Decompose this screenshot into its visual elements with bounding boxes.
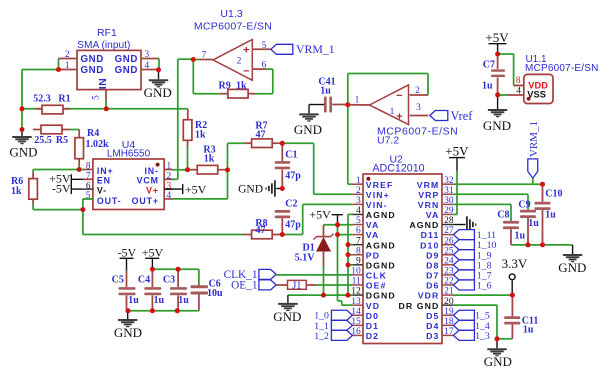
resistor R8 xyxy=(243,218,282,239)
resistor R7 xyxy=(245,121,283,148)
resistor R4 xyxy=(75,128,109,165)
resistor R3 xyxy=(190,145,228,175)
svg-text:R9: R9 xyxy=(219,80,231,91)
wire reference GND rail xyxy=(511,244,573,246)
wire left node vertical xyxy=(21,109,23,130)
svg-text:VRP: VRP xyxy=(418,190,439,200)
svg-text:6: 6 xyxy=(262,61,267,71)
wire IN+ node to R6 top xyxy=(33,170,79,173)
svg-text:13: 13 xyxy=(351,297,361,307)
svg-text:1: 1 xyxy=(167,162,172,172)
svg-text:1u: 1u xyxy=(154,295,165,306)
label 1_6 flag at D6 xyxy=(453,280,491,292)
label Vref flag xyxy=(430,109,473,123)
svg-text:GND: GND xyxy=(144,85,172,100)
svg-text:ADC12010: ADC12010 xyxy=(372,163,424,175)
svg-text:CLK: CLK xyxy=(366,271,387,281)
svg-text:47p: 47p xyxy=(285,171,301,182)
wire R8 node to U2 VIN- xyxy=(282,204,352,234)
svg-text:R5: R5 xyxy=(56,135,68,146)
junction +5V VA D1 xyxy=(335,222,340,227)
svg-text:VRM_1: VRM_1 xyxy=(296,42,335,56)
svg-text:VIN+: VIN+ xyxy=(366,190,390,200)
junction C7 bottom xyxy=(495,92,500,97)
svg-text:20: 20 xyxy=(444,297,454,307)
svg-text:GND: GND xyxy=(483,118,511,133)
svg-text:7: 7 xyxy=(202,51,207,61)
op-amp U4 LMH6550 xyxy=(83,139,173,209)
svg-text:PD: PD xyxy=(366,250,380,260)
svg-text:47: 47 xyxy=(256,129,266,140)
wire AGND pin7 xyxy=(348,244,352,246)
capacitor C7 xyxy=(482,54,505,95)
svg-text:4: 4 xyxy=(167,191,172,201)
svg-text:26: 26 xyxy=(444,236,454,246)
svg-text:D11: D11 xyxy=(421,230,440,240)
junction +5V C7 xyxy=(495,52,500,57)
svg-text:R1: R1 xyxy=(58,93,70,104)
svg-text:U1.3: U1.3 xyxy=(220,8,242,20)
svg-text:3.3V: 3.3V xyxy=(502,256,528,271)
svg-text:VA: VA xyxy=(366,220,380,230)
svg-text:1k: 1k xyxy=(204,154,215,165)
svg-text:8: 8 xyxy=(516,76,521,86)
wire U4 IN+ stub node xyxy=(79,169,83,171)
wire GND rail bottom xyxy=(128,310,199,312)
svg-text:+: + xyxy=(243,45,249,57)
svg-text:4: 4 xyxy=(356,206,361,216)
resistor R2 xyxy=(183,109,207,147)
svg-text:U7.2: U7.2 xyxy=(377,135,399,147)
svg-text:-5V: -5V xyxy=(52,182,71,196)
svg-text:D9: D9 xyxy=(426,250,439,260)
wire AGND pin4 xyxy=(348,214,352,295)
svg-text:52.3: 52.3 xyxy=(33,93,51,104)
IC U2 ADC12010 xyxy=(351,153,454,343)
junction VRM C10 xyxy=(540,182,545,187)
junction PD pin8 xyxy=(346,252,351,257)
svg-text:GND: GND xyxy=(81,54,104,65)
label 1_11 flag at D11 xyxy=(453,230,496,242)
svg-text:GND: GND xyxy=(294,122,322,137)
wire +5V rail top xyxy=(152,269,199,284)
junction C1 C2 middle xyxy=(280,186,285,191)
svg-text:+5V: +5V xyxy=(142,246,164,260)
svg-text:D5: D5 xyxy=(426,311,439,321)
svg-text:EN: EN xyxy=(97,176,111,186)
junction U1.3 output xyxy=(191,57,196,62)
junction R7 C1 xyxy=(280,141,285,146)
junction AGND GND net xyxy=(346,293,351,298)
svg-text:+: + xyxy=(396,111,402,123)
svg-text:-5V: -5V xyxy=(118,246,137,260)
supply -5V at C5 xyxy=(118,246,137,271)
svg-text:−: − xyxy=(396,90,402,102)
ground GND at U1.1 xyxy=(483,95,511,133)
svg-text:OUT-: OUT- xyxy=(97,196,122,206)
wire input node horizontal xyxy=(22,108,188,110)
svg-text:17: 17 xyxy=(444,327,454,337)
svg-text:5: 5 xyxy=(356,216,361,226)
svg-text:Vref: Vref xyxy=(451,109,474,123)
capacitor C5 xyxy=(112,270,140,311)
svg-text:D3: D3 xyxy=(426,331,439,341)
junction C11 DR GND xyxy=(495,336,500,341)
svg-text:1u: 1u xyxy=(515,231,526,242)
ground GND bottom right xyxy=(484,339,512,369)
svg-text:C9: C9 xyxy=(518,199,530,210)
connector RF1 SMA (input) xyxy=(59,27,160,101)
label 1_9 flag at D9 xyxy=(453,250,491,262)
svg-text:R4: R4 xyxy=(87,128,99,139)
svg-text:D8: D8 xyxy=(426,260,439,270)
label 1_3 flag at D3 xyxy=(453,330,489,342)
svg-text:GND: GND xyxy=(558,260,586,275)
wire CLK_1 to pin10 xyxy=(276,274,352,276)
svg-text:5: 5 xyxy=(262,41,267,51)
capacitor C10 xyxy=(535,184,563,245)
wire U1.3 feedback to R9 xyxy=(193,60,220,94)
junction C3 bottom xyxy=(175,308,180,313)
junction R1 left xyxy=(20,106,25,111)
junction AGND pin7 xyxy=(346,242,351,247)
ground GND at J1 xyxy=(273,295,301,324)
svg-text:GND: GND xyxy=(238,184,263,196)
wire J1 to OE# pin11 xyxy=(317,284,352,286)
svg-text:10: 10 xyxy=(351,267,361,277)
jumper J1 xyxy=(276,280,317,291)
svg-text:D10: D10 xyxy=(420,240,439,250)
svg-text:12: 12 xyxy=(351,287,361,297)
svg-text:1.02k: 1.02k xyxy=(86,139,110,150)
wire R4 to IN+ node xyxy=(78,165,80,170)
svg-text:GND: GND xyxy=(81,65,104,76)
svg-text:IN+: IN+ xyxy=(97,166,114,176)
svg-text:6: 6 xyxy=(356,226,361,236)
svg-text:C10: C10 xyxy=(545,189,562,200)
resistor R9 xyxy=(219,80,256,98)
junction VDR 3.3V xyxy=(510,293,515,298)
wire U4 OUT- down xyxy=(83,199,93,235)
junction C5 bottom xyxy=(126,308,131,313)
svg-text:1k: 1k xyxy=(11,186,22,197)
svg-text:1: 1 xyxy=(390,107,395,117)
svg-text:C4: C4 xyxy=(138,275,150,286)
junction R3 right OUT+ xyxy=(225,167,230,172)
wire +5V to VA pin29 xyxy=(453,171,457,215)
wire U4 IN- to R3 xyxy=(173,169,190,171)
capacitor C41 xyxy=(318,77,347,113)
svg-text:1u: 1u xyxy=(178,295,189,306)
svg-text:1u: 1u xyxy=(545,210,556,221)
svg-text:21: 21 xyxy=(444,287,454,297)
junction VA pin6 xyxy=(335,232,340,237)
label CLK_1 flag xyxy=(224,269,277,281)
resistor R6 xyxy=(11,173,37,205)
wire +5V to U1.1 VDD xyxy=(498,54,524,86)
svg-text:OUT+: OUT+ xyxy=(132,196,159,206)
svg-text:IN: IN xyxy=(97,78,109,90)
label 1_2 flag at D2 pin xyxy=(314,330,352,342)
svg-text:7: 7 xyxy=(356,236,361,246)
op-amp U7.2 MCP6007-E/SN xyxy=(348,85,458,147)
svg-text:−: − xyxy=(243,66,249,78)
supply +5V at D1 VA xyxy=(309,207,342,224)
svg-text:1u: 1u xyxy=(128,295,139,306)
svg-text:+5V: +5V xyxy=(445,144,469,159)
svg-text:2: 2 xyxy=(65,50,70,60)
svg-text:D1: D1 xyxy=(302,242,314,253)
svg-text:31: 31 xyxy=(444,186,454,196)
wire VRP pin31 row xyxy=(453,194,528,210)
svg-text:VREF: VREF xyxy=(366,180,394,190)
junction DGND pin9 xyxy=(346,262,351,267)
supply -5V at U4 V- xyxy=(52,182,83,196)
wire C7 to U1.1 VSS xyxy=(498,94,524,96)
wire D1 anode to GND net xyxy=(323,266,325,295)
wire DR GND pin20 xyxy=(453,305,497,339)
junction RF1 pin5 node xyxy=(104,106,109,111)
svg-text:D0: D0 xyxy=(366,311,379,321)
svg-text:VA: VA xyxy=(366,230,380,240)
svg-text:22: 22 xyxy=(444,277,454,287)
junction C4 top xyxy=(150,267,155,272)
svg-text:2: 2 xyxy=(415,86,420,96)
wire R2 bottom xyxy=(187,147,189,170)
svg-text:5.1V: 5.1V xyxy=(295,253,316,264)
svg-text:C2: C2 xyxy=(285,199,297,210)
svg-text:J1: J1 xyxy=(292,280,301,291)
label VRM_1 vertical flag xyxy=(528,121,540,184)
junction RF1 pin3-pin4 xyxy=(156,67,161,72)
svg-text:AGND: AGND xyxy=(409,220,439,230)
junction C41 node xyxy=(345,102,350,107)
ground GND left xyxy=(9,130,37,160)
svg-text:2: 2 xyxy=(167,172,172,182)
label 1_4 flag at D4 xyxy=(453,320,489,332)
supply +5V at C4 xyxy=(142,246,164,270)
svg-text:MCP6007-E/SN: MCP6007-E/SN xyxy=(525,63,599,74)
supply +5V at U2 VA right xyxy=(445,144,469,171)
svg-text:1: 1 xyxy=(65,61,70,71)
svg-text:D2: D2 xyxy=(366,331,379,341)
capacitor C4 xyxy=(138,269,165,311)
wire VDR pin21 row xyxy=(453,294,512,296)
svg-text:+5V: +5V xyxy=(309,207,331,221)
label 1_8 flag at D8 xyxy=(453,260,491,272)
svg-text:D1: D1 xyxy=(366,321,379,331)
svg-text:SMA (input): SMA (input) xyxy=(77,40,130,51)
capacitor C11 xyxy=(504,295,538,339)
wire PD pin8 xyxy=(348,254,352,256)
svg-text:1u: 1u xyxy=(482,81,493,92)
capacitor C9 xyxy=(518,199,539,245)
ground at AGND pin28 (rotated) xyxy=(453,216,476,233)
junction R6 OUT- xyxy=(80,207,85,212)
svg-text:1u: 1u xyxy=(528,218,539,229)
wire RF1 pin2 to pin1 and left to node xyxy=(22,59,59,110)
svg-text:28: 28 xyxy=(444,216,454,226)
wire R9 to U1.3 -in xyxy=(255,69,273,94)
svg-text:GND: GND xyxy=(273,309,301,324)
svg-text:1: 1 xyxy=(355,96,360,106)
svg-text:GND: GND xyxy=(484,354,512,369)
wire U1.3 output xyxy=(193,59,200,61)
svg-text:MCP6007-E/SN: MCP6007-E/SN xyxy=(194,20,272,32)
capacitor C6 xyxy=(191,279,224,311)
wire R6 bottom to OUT- node xyxy=(33,205,83,210)
svg-text:D6: D6 xyxy=(426,281,439,291)
svg-text:1_6: 1_6 xyxy=(477,281,492,292)
svg-text:1: 1 xyxy=(356,176,361,186)
op-amp U1.3 MCP6007-E/SN xyxy=(194,8,272,80)
svg-text:4: 4 xyxy=(145,61,150,71)
svg-text:VCM: VCM xyxy=(137,176,159,186)
svg-text:VA: VA xyxy=(426,210,440,220)
wire R7 node to U2 VIN+ xyxy=(282,143,352,194)
wire U7.2 feedback xyxy=(348,74,428,105)
svg-text:1u: 1u xyxy=(523,325,534,336)
svg-text:3: 3 xyxy=(145,50,150,60)
svg-text:1k: 1k xyxy=(195,130,206,141)
ground GND at C41 xyxy=(294,105,324,138)
svg-text:C3: C3 xyxy=(163,275,175,286)
ground GND at C1 C2 (rotated) xyxy=(238,180,282,197)
svg-text:5: 5 xyxy=(91,95,101,100)
svg-text:19: 19 xyxy=(444,307,454,317)
label 1_0 flag at D0 xyxy=(314,310,352,322)
wire VA pin5 row xyxy=(324,224,353,226)
wire RF1 pin5 to R1 node xyxy=(105,101,107,109)
svg-text:47p: 47p xyxy=(285,220,301,231)
svg-text:10u: 10u xyxy=(207,288,223,299)
svg-text:GND: GND xyxy=(114,325,142,340)
svg-text:23: 23 xyxy=(444,267,454,277)
svg-text:VIN-: VIN- xyxy=(366,200,388,210)
resistor R5 xyxy=(33,125,70,146)
svg-text:VRM: VRM xyxy=(417,180,440,190)
wire +5V down to VD xyxy=(338,225,353,305)
junction R2 bottom IN- xyxy=(185,167,190,172)
svg-text:VDR: VDR xyxy=(418,291,440,301)
wire VRM pin32 row xyxy=(453,183,542,185)
junction C9 rail xyxy=(526,242,531,247)
svg-text:GND: GND xyxy=(115,65,138,76)
wire C41 node to U2 VREF xyxy=(348,105,353,185)
svg-text:OE_1: OE_1 xyxy=(231,280,257,292)
svg-text:V+: V+ xyxy=(146,186,159,196)
svg-text:6: 6 xyxy=(86,181,91,191)
capacitor C8 xyxy=(497,209,525,245)
junction R8 C2 xyxy=(280,232,285,237)
svg-text:8: 8 xyxy=(86,162,91,172)
svg-text:DGND: DGND xyxy=(366,291,396,301)
svg-text:27: 27 xyxy=(444,226,454,236)
junction C10 rail xyxy=(540,242,545,247)
diode D1 zener 5.1V xyxy=(295,225,334,266)
svg-text:D7: D7 xyxy=(426,271,439,281)
svg-text:RF1: RF1 xyxy=(97,27,117,39)
supply +5V at U4 V+ xyxy=(164,182,206,196)
svg-text:+5V: +5V xyxy=(185,182,207,196)
junction C3 top xyxy=(176,267,181,272)
svg-text:30: 30 xyxy=(444,196,454,206)
svg-text:32: 32 xyxy=(444,176,454,186)
wire R5 to R4 xyxy=(70,129,80,131)
ground GND at RF1 xyxy=(144,70,172,100)
wire GND net to DGND pin12 xyxy=(288,294,353,296)
svg-text:7: 7 xyxy=(86,172,91,182)
wire DGND pin9 xyxy=(348,264,352,266)
supply 3.3V node xyxy=(502,256,528,295)
svg-text:OE#: OE# xyxy=(366,281,387,291)
wire VRN pin30 row xyxy=(453,204,511,221)
svg-text:25: 25 xyxy=(444,246,454,256)
junction R4 bottom IN+ xyxy=(77,167,82,172)
svg-text:AGND: AGND xyxy=(366,210,396,220)
capacitor C1 xyxy=(275,143,302,188)
capacitor C3 xyxy=(163,269,189,311)
label 1_10 flag at D10 xyxy=(453,240,496,252)
svg-text:C7: C7 xyxy=(483,60,495,71)
svg-text:47: 47 xyxy=(256,225,266,236)
svg-text:2: 2 xyxy=(356,186,361,196)
svg-text:1u: 1u xyxy=(320,86,331,97)
svg-text:VD: VD xyxy=(366,301,380,311)
svg-text:11: 11 xyxy=(352,277,361,287)
svg-text:V-: V- xyxy=(97,186,107,196)
ground GND at cap bank xyxy=(114,311,142,340)
svg-text:C8: C8 xyxy=(497,209,509,220)
svg-text:D4: D4 xyxy=(426,321,439,331)
svg-text:VRN: VRN xyxy=(418,200,440,210)
label OE_1 flag xyxy=(231,280,276,292)
supply +5V top right xyxy=(485,30,509,54)
label 1_5 flag at D5 xyxy=(453,310,489,322)
svg-text:29: 29 xyxy=(444,206,454,216)
junction R5 left xyxy=(20,127,25,132)
svg-text:VRM_1: VRM_1 xyxy=(528,121,540,157)
svg-text:18: 18 xyxy=(444,317,454,327)
label VRM_1 flag at U1.3 +in xyxy=(271,42,335,56)
svg-text:C5: C5 xyxy=(112,275,124,286)
supply +5V at U4 EN xyxy=(49,172,83,186)
svg-text:LMH6550: LMH6550 xyxy=(107,149,151,160)
svg-text:8: 8 xyxy=(356,246,361,256)
op-amp power U1.1 MCP6007-E/SN xyxy=(514,54,599,104)
svg-text:IN-: IN- xyxy=(144,166,158,176)
wire OUT- to R8 xyxy=(83,234,243,236)
svg-text:4: 4 xyxy=(516,87,521,97)
svg-text:GND: GND xyxy=(115,54,138,65)
label 1_7 flag at D7 xyxy=(453,270,491,282)
svg-text:DR GND: DR GND xyxy=(399,301,440,311)
wire RF1 pin3 down to pin4 xyxy=(158,59,160,70)
svg-text:1_3: 1_3 xyxy=(475,331,490,342)
svg-text:1_2: 1_2 xyxy=(314,331,329,342)
resistor R1 xyxy=(33,93,70,114)
junction RF1 pin1-pin2 xyxy=(56,67,61,72)
ground GND right rail xyxy=(558,245,586,275)
svg-text:DGND: DGND xyxy=(366,260,396,270)
wire OUT+ to R3 and R7 xyxy=(173,143,245,199)
svg-text:+5V: +5V xyxy=(485,30,509,45)
wire C11 bottom to GND xyxy=(497,338,512,340)
svg-text:1k: 1k xyxy=(236,80,247,91)
svg-text:3: 3 xyxy=(416,103,421,113)
junction C4 bottom xyxy=(150,308,155,313)
svg-text:C1: C1 xyxy=(285,150,297,161)
